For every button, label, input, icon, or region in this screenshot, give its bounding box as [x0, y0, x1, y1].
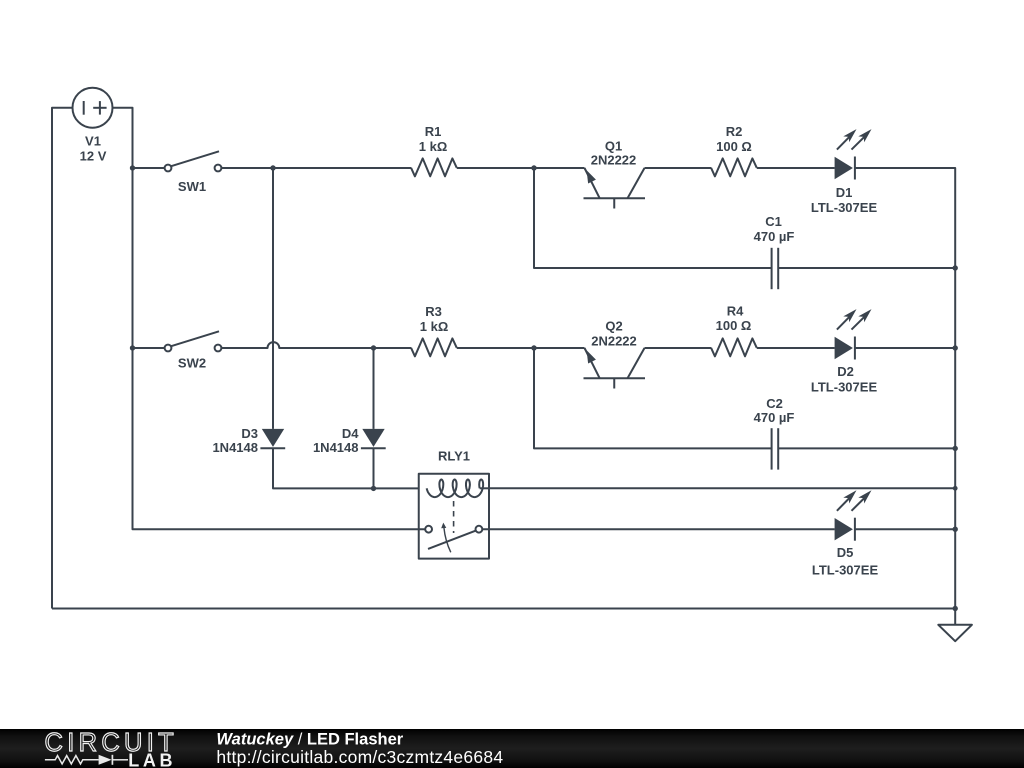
wire R1 to node x534: [457, 167, 534, 169]
D2 label: [811, 364, 878, 394]
svg-text:C2: C2: [766, 396, 783, 411]
wire D1 to right rail: [855, 168, 955, 609]
switch SW1: [165, 151, 222, 171]
wire node x534 down to C2 line: [534, 348, 772, 448]
svg-text:Watuckey / LED Flasher: Watuckey / LED Flasher: [216, 731, 403, 749]
capacitor C1: [772, 248, 779, 289]
C2 label: [754, 396, 795, 425]
wire R4 to D2: [757, 347, 835, 349]
svg-text:SW2: SW2: [178, 355, 206, 370]
wire V1 right down left feed rail: [113, 108, 133, 529]
RLY1 label: [438, 449, 470, 464]
node junction row2 x534: [531, 345, 536, 350]
diode D4: [361, 429, 386, 448]
wire node to R3: [374, 347, 412, 349]
svg-text:LTL-307EE: LTL-307EE: [811, 200, 878, 215]
wire rail to SW2: [133, 347, 165, 349]
wire D4 to coil line: [373, 448, 375, 488]
wire rail to SW1: [133, 167, 165, 169]
footer bar: [0, 729, 1024, 768]
capacitor C2: [772, 428, 779, 469]
svg-text:R3: R3: [425, 304, 442, 319]
wire D4 branch down from row2 node: [373, 348, 375, 429]
node junction left rail row2: [130, 345, 135, 350]
svg-text:Q2: Q2: [605, 318, 622, 333]
wire left rail to relay common pin: [133, 528, 426, 530]
Q1 label: [591, 139, 637, 168]
LED D2: [835, 309, 872, 359]
transistor Q1: [584, 168, 646, 209]
V1 label: [80, 134, 107, 164]
wire relay NO pin to D5: [482, 528, 834, 530]
svg-text:100 Ω: 100 Ω: [716, 318, 752, 333]
wire coil to right rail: [489, 487, 955, 489]
node junction right rail C1: [953, 265, 958, 270]
svg-text:1 kΩ: 1 kΩ: [420, 319, 449, 334]
R4 label: [716, 304, 752, 334]
node junction right rail row2: [953, 345, 958, 350]
node junction row1 x534: [531, 165, 536, 170]
D5 label: [812, 545, 879, 578]
wire R2 to D1: [757, 167, 835, 169]
C1 label: [754, 214, 795, 244]
R3 label: [420, 304, 449, 334]
node junction right rail coil: [953, 486, 958, 491]
svg-text:2N2222: 2N2222: [591, 333, 637, 348]
D3 label: [212, 426, 258, 455]
voltage source V1: [73, 88, 113, 128]
wire bottom: [52, 608, 955, 610]
node junction left rail row1: [130, 165, 135, 170]
D1 label: [811, 185, 878, 215]
D4 label: [313, 426, 359, 455]
svg-text:R1: R1: [425, 124, 442, 139]
resistor R3: [411, 338, 457, 356]
wire D5 to right rail: [855, 528, 955, 530]
resistor R1: [411, 158, 457, 176]
svg-text:1N4148: 1N4148: [313, 440, 359, 455]
R1 label: [419, 124, 448, 154]
svg-text:LAB: LAB: [128, 750, 176, 768]
svg-text:470 µF: 470 µF: [754, 410, 795, 425]
svg-text:LTL-307EE: LTL-307EE: [811, 380, 878, 395]
wire SW1 to node: [222, 167, 274, 169]
svg-text:D4: D4: [342, 426, 359, 441]
wire SW2 to hop over D3 branch: [222, 342, 374, 348]
wire V1 left to left rail: [52, 108, 73, 609]
svg-text:D1: D1: [836, 185, 853, 200]
transistor Q2: [584, 348, 646, 389]
node junction right rail row3: [953, 527, 958, 532]
svg-text:2N2222: 2N2222: [591, 153, 637, 168]
svg-text:D2: D2: [837, 364, 854, 379]
wire D3 branch down from row1 node: [272, 168, 274, 429]
relay RLY1: [419, 474, 489, 559]
LED D1: [835, 129, 872, 179]
svg-text:SW1: SW1: [178, 179, 206, 194]
ground: [938, 609, 972, 642]
svg-text:LTL-307EE: LTL-307EE: [812, 563, 879, 578]
resistor R2: [711, 158, 757, 176]
diode D3: [260, 429, 285, 448]
node junction row1 x273: [270, 165, 275, 170]
wire D3 to relay coil line: [273, 448, 419, 488]
wire D2 to right rail: [855, 347, 955, 349]
svg-text:http://circuitlab.com/c3czmtz4: http://circuitlab.com/c3czmtz4e6684: [216, 747, 503, 767]
CircuitLab logo LAB: [128, 750, 176, 768]
node junction coil line D4: [371, 486, 376, 491]
node junction right rail bottom: [953, 606, 958, 611]
node junction right rail C2: [953, 446, 958, 451]
wire R3 to node x534: [457, 347, 534, 349]
wire Q2 collector to R4: [645, 347, 712, 349]
wire node x534 down to C1 line: [534, 168, 772, 268]
footer title: [216, 731, 403, 749]
wire node to R1: [273, 167, 411, 169]
wire C2 to right rail: [778, 447, 955, 449]
svg-text:V1: V1: [85, 134, 101, 149]
Q2 label: [591, 318, 637, 348]
svg-text:100 Ω: 100 Ω: [716, 139, 752, 154]
node junction row2 D4: [371, 345, 376, 350]
R2 label: [716, 124, 752, 154]
svg-text:R4: R4: [727, 304, 744, 319]
wire Q1 collector to R2: [645, 167, 712, 169]
wire node x534 to Q1 emitter: [534, 167, 585, 169]
switch SW2: [165, 331, 222, 351]
SW1 label: [178, 179, 206, 194]
footer url: [216, 747, 503, 767]
svg-text:D5: D5: [837, 545, 854, 560]
CircuitLab logo CIRCUIT: [45, 729, 179, 757]
svg-text:C1: C1: [765, 214, 782, 229]
LED D5: [835, 490, 872, 540]
svg-text:D3: D3: [241, 426, 258, 441]
svg-text:1N4148: 1N4148: [212, 440, 258, 455]
svg-text:R2: R2: [726, 124, 743, 139]
CircuitLab logo resistor-diode glyph: [45, 755, 128, 765]
svg-text:1 kΩ: 1 kΩ: [419, 139, 448, 154]
wire node x534 to Q2 emitter: [534, 347, 585, 349]
svg-text:Q1: Q1: [605, 139, 622, 154]
svg-text:470 µF: 470 µF: [754, 229, 795, 244]
wire C1 to right rail: [778, 267, 955, 269]
svg-text:RLY1: RLY1: [438, 449, 470, 464]
SW2 label: [178, 355, 206, 370]
svg-text:12 V: 12 V: [80, 148, 107, 163]
resistor R4: [711, 338, 757, 356]
